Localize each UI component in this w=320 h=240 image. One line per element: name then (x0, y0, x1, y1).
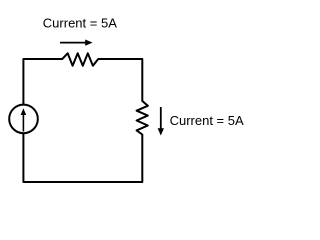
wire: left side + top-left segment (23, 59, 62, 119)
resistor R1 (top) (62, 53, 98, 65)
svg-text:Current = 5A: Current = 5A (43, 15, 117, 30)
svg-text:Current = 5A: Current = 5A (170, 113, 244, 128)
current direction arrow (right side, pointing down) (158, 107, 164, 136)
current direction arrow (top, pointing right) (60, 40, 93, 46)
wire: right side lower + bottom + left lower (23, 119, 142, 182)
wire: top-right segment + right side upper (98, 59, 143, 102)
current source arrow (up) (21, 108, 27, 131)
resistor R2 (right) (137, 101, 148, 135)
current source I1 (circle) (9, 105, 38, 134)
